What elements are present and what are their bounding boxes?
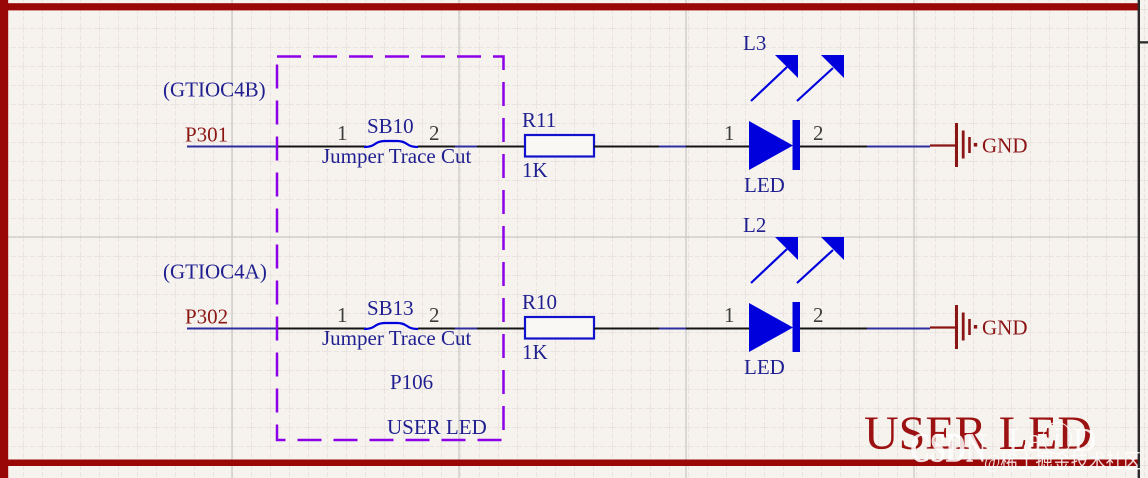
wire navy segment before box edge — [455, 146, 477, 148]
LED L3 light arrow 1 — [751, 55, 798, 101]
svg-text:LaⓘD: LaⓘD — [1008, 421, 1096, 459]
svg-text:P106: P106 — [390, 370, 433, 394]
wire navy segment to GND — [867, 146, 930, 148]
svg-text:1: 1 — [724, 121, 735, 145]
wire SB13 pin2 to R10 — [418, 328, 525, 330]
jumper SB10 arc — [364, 141, 418, 147]
svg-text:1: 1 — [337, 303, 348, 327]
svg-text:Jumper Trace Cut: Jumper Trace Cut — [322, 326, 471, 350]
wire into box to SB13 pin1 — [278, 328, 366, 330]
svg-text:LED: LED — [744, 173, 785, 197]
wire into box to SB10 pin1 — [278, 146, 366, 148]
part P106 boundary (dashed box) — [277, 57, 504, 441]
wire R11 to LED pin1 — [594, 146, 749, 148]
wire LED pin2 to GND (black, row2) — [800, 328, 867, 330]
wire P302 to jumper box (navy segment) — [187, 328, 278, 330]
wire navy segment mid — [659, 146, 686, 148]
svg-text:2: 2 — [429, 121, 440, 145]
svg-text:(GTIOC4B): (GTIOC4B) — [163, 78, 266, 102]
svg-text:P302: P302 — [185, 305, 228, 329]
svg-text:GND: GND — [982, 316, 1028, 340]
wire R10 to LED pin1 (row2) — [594, 328, 749, 330]
svg-text:Jumper Trace Cut: Jumper Trace Cut — [322, 144, 471, 168]
LED L2 light arrow 1 — [751, 237, 798, 283]
LED L2 cathode bar — [793, 302, 801, 352]
ground GND (row2) — [930, 305, 977, 349]
resistor R10 — [525, 317, 594, 339]
svg-text:2: 2 — [429, 303, 440, 327]
svg-text:SB13: SB13 — [367, 296, 414, 320]
wire LED pin2 to GND (black) — [800, 146, 867, 148]
svg-text:R10: R10 — [522, 290, 557, 314]
LED L2 light arrow 2 — [797, 237, 844, 283]
watermark CSDN — [910, 421, 1141, 473]
wire navy segment before box edge (row2) — [455, 328, 477, 330]
LED L3 cathode bar — [793, 120, 801, 170]
svg-text:L3: L3 — [743, 31, 766, 55]
wire SB10 pin2 to R11 — [418, 146, 525, 148]
LED L2 anode triangle — [749, 303, 793, 352]
svg-text:1K: 1K — [522, 340, 548, 364]
svg-text:SB10: SB10 — [367, 114, 414, 138]
svg-text:P301: P301 — [185, 123, 228, 147]
svg-text:1: 1 — [724, 303, 735, 327]
svg-text:GND: GND — [982, 134, 1028, 158]
svg-text:L2: L2 — [743, 213, 766, 237]
wire navy segment to GND (row2) — [867, 328, 930, 330]
svg-text:CSDN: CSDN — [910, 426, 986, 472]
wire navy segment mid (row2) — [659, 328, 686, 330]
svg-text:USER LED: USER LED — [387, 415, 487, 439]
ground GND (row1) — [930, 123, 977, 167]
svg-text:LED: LED — [744, 355, 785, 379]
svg-text:2: 2 — [813, 121, 824, 145]
wire P301 to jumper box (navy segment) — [187, 146, 278, 148]
svg-text:2: 2 — [813, 303, 824, 327]
jumper SB13 arc — [364, 323, 418, 329]
svg-text:R11: R11 — [522, 108, 556, 132]
LED L3 anode triangle — [749, 121, 793, 170]
resistor R11 — [525, 135, 594, 157]
LED L3 light arrow 2 — [797, 55, 844, 101]
svg-text:1: 1 — [337, 121, 348, 145]
svg-text:(GTIOC4A): (GTIOC4A) — [163, 260, 267, 284]
svg-text:1K: 1K — [522, 158, 548, 182]
